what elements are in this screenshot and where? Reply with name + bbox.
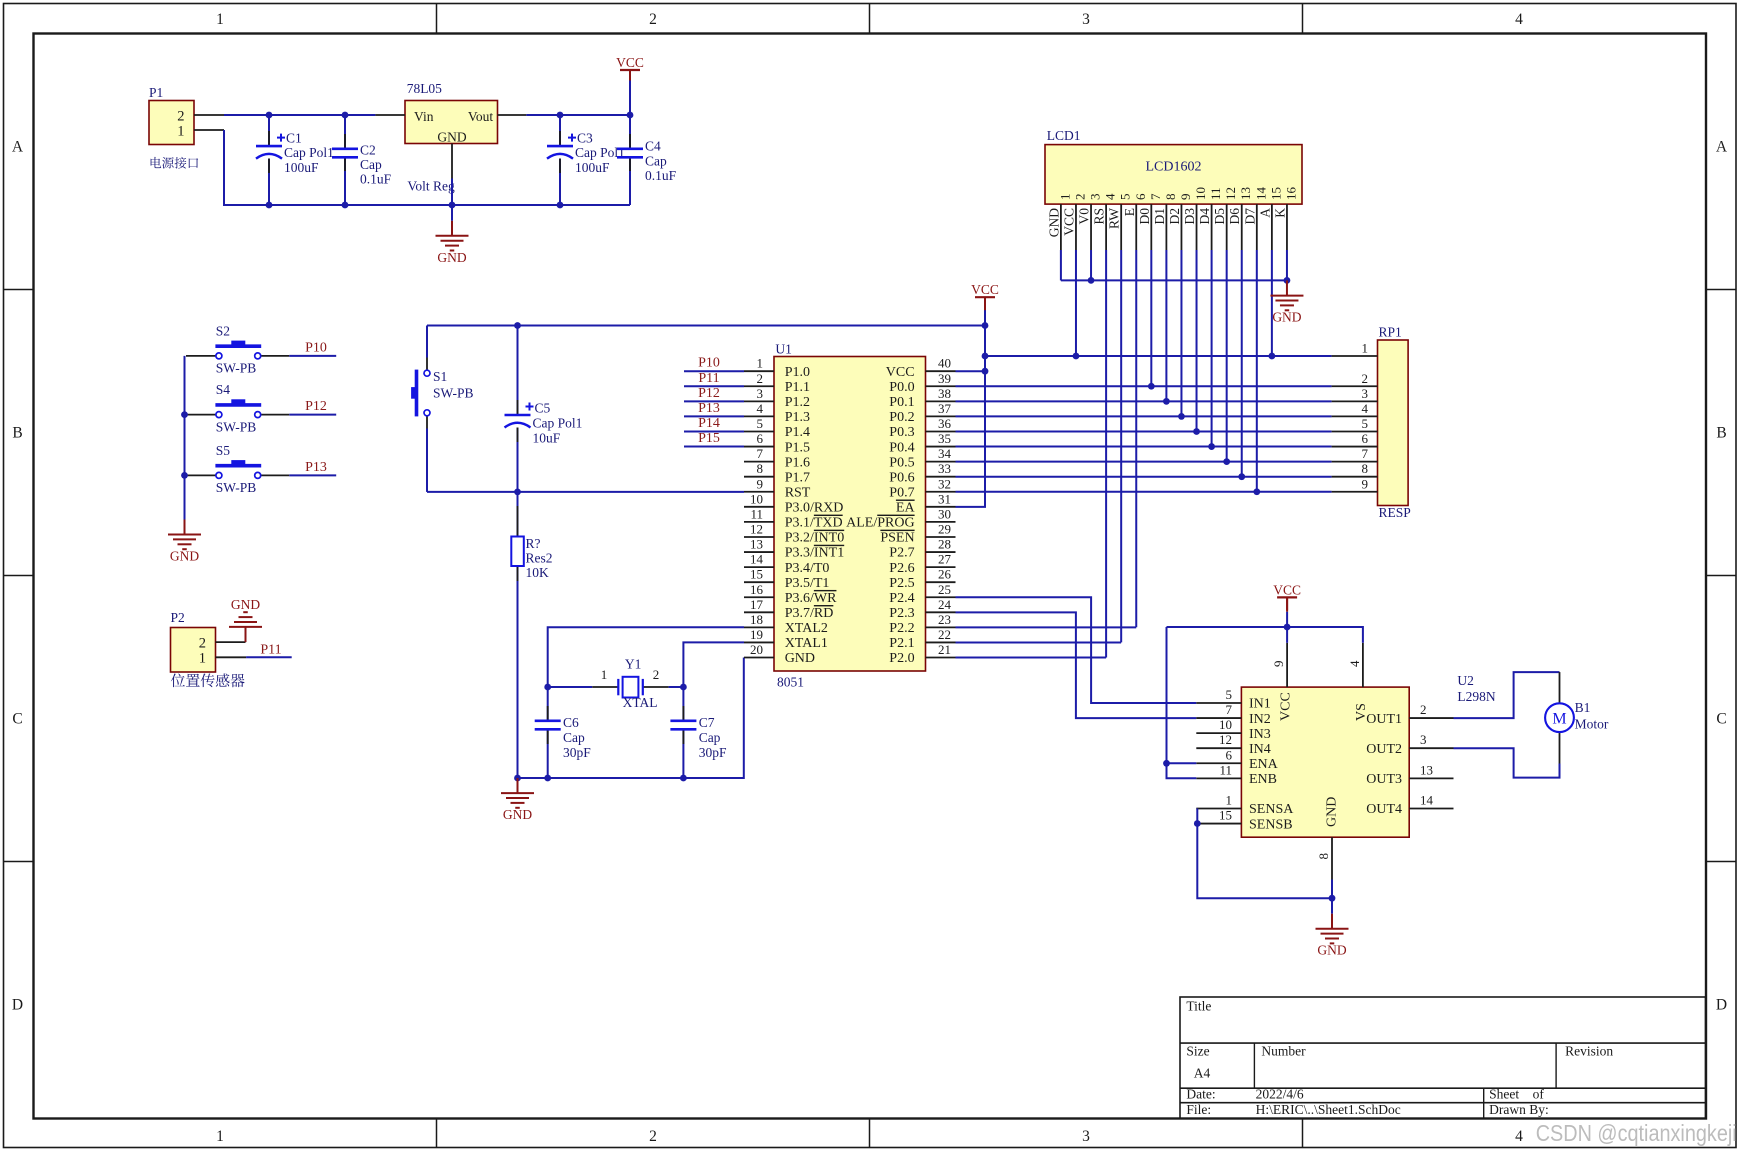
svg-text:P0.2: P0.2: [889, 410, 914, 425]
svg-text:10: 10: [1193, 187, 1208, 200]
svg-text:10uF: 10uF: [533, 431, 561, 446]
svg-text:1: 1: [177, 123, 184, 139]
svg-text:14: 14: [750, 552, 764, 567]
svg-text:22: 22: [938, 627, 951, 642]
svg-text:P0.6: P0.6: [889, 470, 914, 485]
svg-text:12: 12: [1219, 732, 1232, 747]
svg-text:7: 7: [757, 446, 764, 461]
svg-text:30pF: 30pF: [563, 745, 591, 760]
svg-text:6: 6: [1226, 747, 1233, 762]
svg-text:RP1: RP1: [1379, 324, 1402, 339]
svg-text:10: 10: [750, 491, 763, 506]
svg-text:2: 2: [1420, 702, 1427, 717]
svg-text:1: 1: [601, 667, 608, 682]
svg-text:1: 1: [1057, 194, 1072, 201]
svg-text:P2: P2: [171, 610, 185, 625]
svg-text:D3: D3: [1182, 208, 1197, 225]
svg-text:P13: P13: [698, 401, 720, 416]
svg-text:3: 3: [1420, 732, 1427, 747]
svg-text:4: 4: [1515, 1128, 1523, 1145]
svg-text:GND: GND: [437, 130, 466, 145]
svg-text:RW: RW: [1107, 208, 1122, 229]
svg-text:U2: U2: [1457, 673, 1474, 688]
svg-text:17: 17: [750, 597, 764, 612]
svg-text:2: 2: [199, 636, 206, 652]
svg-text:P14: P14: [698, 416, 720, 431]
svg-text:P3.7/RD: P3.7/RD: [785, 606, 834, 621]
svg-text:26: 26: [938, 567, 952, 582]
svg-text:P2.7: P2.7: [889, 546, 914, 561]
svg-text:Drawn By:: Drawn By:: [1489, 1102, 1549, 1117]
svg-text:GND: GND: [231, 597, 260, 612]
svg-text:Cap: Cap: [645, 153, 667, 168]
svg-text:3: 3: [1082, 11, 1090, 28]
svg-text:P3.5/T1: P3.5/T1: [785, 576, 830, 591]
svg-text:P13: P13: [305, 460, 327, 475]
svg-text:Res2: Res2: [526, 551, 553, 566]
svg-text:39: 39: [938, 371, 951, 386]
svg-text:13: 13: [1420, 762, 1433, 777]
svg-text:2: 2: [1072, 194, 1087, 201]
svg-text:37: 37: [938, 401, 952, 416]
svg-text:6: 6: [1362, 431, 1369, 446]
svg-text:P3.1/TXD: P3.1/TXD: [785, 516, 843, 531]
svg-text:2: 2: [649, 11, 657, 28]
svg-text:8: 8: [757, 461, 764, 476]
svg-text:VCC: VCC: [971, 282, 999, 297]
svg-text:Cap Pol1: Cap Pol1: [284, 145, 334, 160]
svg-text:2: 2: [757, 371, 764, 386]
svg-text:RESP: RESP: [1379, 505, 1411, 520]
svg-text:IN2: IN2: [1249, 712, 1271, 727]
svg-text:P2.6: P2.6: [889, 561, 914, 576]
svg-text:PSEN: PSEN: [880, 531, 914, 546]
svg-text:OUT3: OUT3: [1366, 772, 1402, 787]
svg-text:C1: C1: [286, 131, 302, 146]
svg-text:1: 1: [199, 651, 206, 667]
svg-text:H:\ERIC\..\Sheet1.SchDoc: H:\ERIC\..\Sheet1.SchDoc: [1256, 1102, 1401, 1117]
svg-text:VS: VS: [1354, 703, 1369, 721]
svg-text:C6: C6: [563, 715, 579, 730]
svg-text:P2.0: P2.0: [889, 651, 914, 666]
svg-text:P1.7: P1.7: [785, 470, 810, 485]
svg-text:3: 3: [1362, 386, 1369, 401]
svg-text:IN1: IN1: [1249, 697, 1271, 712]
svg-text:38: 38: [938, 386, 951, 401]
svg-text:6: 6: [757, 431, 764, 446]
svg-text:P0.3: P0.3: [889, 425, 914, 440]
svg-text:P1.5: P1.5: [785, 440, 810, 455]
svg-text:C7: C7: [699, 715, 715, 730]
svg-text:VCC: VCC: [1279, 692, 1294, 721]
svg-text:B1: B1: [1575, 700, 1591, 715]
svg-text:A: A: [12, 139, 24, 156]
svg-text:VCC: VCC: [1061, 208, 1076, 236]
svg-text:7: 7: [1362, 446, 1369, 461]
svg-text:S1: S1: [433, 369, 447, 384]
svg-text:LCD1602: LCD1602: [1146, 160, 1202, 175]
svg-text:35: 35: [938, 431, 951, 446]
svg-text:P0.0: P0.0: [889, 380, 914, 395]
svg-text:P3.3/INT1: P3.3/INT1: [785, 546, 845, 561]
svg-text:10K: 10K: [526, 565, 550, 580]
svg-text:C: C: [1716, 711, 1726, 728]
svg-text:Size: Size: [1186, 1043, 1209, 1058]
svg-text:ENA: ENA: [1249, 757, 1279, 772]
svg-text:30pF: 30pF: [699, 745, 727, 760]
svg-text:Cap: Cap: [360, 157, 382, 172]
svg-text:C4: C4: [645, 139, 661, 154]
svg-text:11: 11: [1208, 187, 1223, 200]
svg-text:A: A: [1257, 208, 1272, 218]
svg-text:4: 4: [1515, 11, 1523, 28]
svg-text:5: 5: [1362, 416, 1369, 431]
svg-text:K: K: [1272, 208, 1287, 218]
svg-text:9: 9: [1362, 476, 1369, 491]
svg-text:23: 23: [938, 612, 951, 627]
svg-text:Title: Title: [1186, 998, 1211, 1013]
svg-text:P0.1: P0.1: [889, 395, 914, 410]
svg-text:12: 12: [1223, 187, 1238, 200]
svg-text:16: 16: [750, 582, 764, 597]
svg-text:C3: C3: [577, 131, 593, 146]
svg-text:25: 25: [938, 582, 951, 597]
svg-text:7: 7: [1226, 702, 1233, 717]
svg-text:D6: D6: [1227, 208, 1242, 225]
svg-text:7: 7: [1148, 193, 1163, 200]
svg-text:20: 20: [750, 642, 763, 657]
svg-text:13: 13: [1238, 187, 1253, 200]
svg-text:File:: File:: [1186, 1102, 1211, 1117]
svg-text:1: 1: [1226, 792, 1233, 807]
svg-text:6: 6: [1133, 193, 1148, 200]
svg-text:2: 2: [1362, 371, 1369, 386]
svg-text:IN3: IN3: [1249, 727, 1271, 742]
svg-text:1: 1: [1362, 341, 1369, 356]
svg-text:Date:: Date:: [1186, 1086, 1215, 1101]
svg-text:D: D: [12, 997, 23, 1014]
svg-text:P2.4: P2.4: [889, 591, 914, 606]
svg-text:L298N: L298N: [1457, 689, 1495, 704]
svg-text:P2.3: P2.3: [889, 606, 914, 621]
svg-text:19: 19: [750, 627, 763, 642]
svg-text:XTAL: XTAL: [623, 695, 658, 710]
svg-text:SENSB: SENSB: [1249, 817, 1293, 832]
svg-text:5: 5: [1226, 687, 1233, 702]
svg-text:16: 16: [1283, 187, 1298, 201]
svg-text:D0: D0: [1137, 208, 1152, 225]
svg-text:IN4: IN4: [1249, 742, 1271, 757]
svg-text:P3.2/INT0: P3.2/INT0: [785, 531, 845, 546]
svg-text:5: 5: [757, 416, 764, 431]
svg-text:ENB: ENB: [1249, 772, 1277, 787]
svg-text:OUT2: OUT2: [1366, 742, 1402, 757]
svg-text:Vin: Vin: [414, 109, 434, 124]
svg-text:8: 8: [1362, 461, 1369, 476]
svg-text:P0.5: P0.5: [889, 455, 914, 470]
svg-text:29: 29: [938, 521, 951, 536]
svg-text:SW-PB: SW-PB: [433, 386, 474, 401]
svg-text:EA: EA: [896, 501, 916, 516]
svg-text:0.1uF: 0.1uF: [360, 172, 392, 187]
svg-text:40: 40: [938, 356, 951, 371]
svg-text:21: 21: [938, 642, 951, 657]
svg-text:14: 14: [1420, 792, 1434, 807]
svg-text:33: 33: [938, 461, 951, 476]
svg-text:P2.1: P2.1: [889, 636, 914, 651]
svg-text:34: 34: [938, 446, 952, 461]
svg-text:Vout: Vout: [468, 109, 494, 124]
svg-text:Y1: Y1: [625, 656, 642, 671]
svg-text:4: 4: [1347, 660, 1362, 667]
svg-text:U1: U1: [775, 342, 792, 357]
svg-text:P2.2: P2.2: [889, 621, 914, 636]
svg-text:4: 4: [1103, 193, 1118, 200]
svg-text:13: 13: [750, 537, 763, 552]
svg-text:C2: C2: [360, 142, 376, 157]
svg-text:GND: GND: [503, 807, 532, 822]
svg-text:D4: D4: [1197, 208, 1212, 225]
svg-text:D2: D2: [1167, 208, 1182, 225]
svg-text:1: 1: [216, 1128, 224, 1145]
svg-text:24: 24: [938, 597, 952, 612]
svg-text:Revision: Revision: [1565, 1043, 1613, 1058]
svg-text:P1.2: P1.2: [785, 395, 810, 410]
svg-text:1: 1: [757, 356, 764, 371]
svg-text:GND: GND: [1325, 797, 1340, 827]
svg-text:100uF: 100uF: [284, 160, 319, 175]
svg-text:P3.6/WR: P3.6/WR: [785, 591, 837, 606]
svg-text:P11: P11: [698, 371, 719, 386]
svg-text:LCD1: LCD1: [1047, 128, 1081, 143]
svg-text:12: 12: [750, 521, 763, 536]
svg-text:0.1uF: 0.1uF: [645, 168, 677, 183]
svg-text:GND: GND: [1046, 208, 1061, 237]
svg-text:2: 2: [653, 667, 660, 682]
svg-text:C5: C5: [535, 401, 551, 416]
svg-text:XTAL2: XTAL2: [785, 621, 828, 636]
svg-text:11: 11: [750, 506, 763, 521]
svg-text:4: 4: [1362, 401, 1369, 416]
svg-text:GND: GND: [170, 549, 199, 564]
svg-text:P3.0/RXD: P3.0/RXD: [785, 501, 844, 516]
svg-text:SW-PB: SW-PB: [216, 419, 257, 434]
svg-text:VCC: VCC: [1273, 582, 1301, 597]
svg-text:11: 11: [1219, 762, 1232, 777]
svg-text:D5: D5: [1212, 208, 1227, 225]
svg-text:9: 9: [1271, 661, 1286, 668]
svg-text:ALE/PROG: ALE/PROG: [846, 516, 914, 531]
svg-text:SW-PB: SW-PB: [216, 361, 257, 376]
svg-text:P1.4: P1.4: [785, 425, 810, 440]
svg-text:27: 27: [938, 552, 952, 567]
svg-text:P0.7: P0.7: [889, 485, 914, 500]
svg-text:P0.4: P0.4: [889, 440, 914, 455]
svg-text:E: E: [1122, 208, 1137, 216]
svg-text:18: 18: [750, 612, 763, 627]
svg-text:B: B: [12, 425, 22, 442]
svg-text:A: A: [1716, 139, 1728, 156]
svg-text:3: 3: [1082, 1128, 1090, 1145]
svg-text:GND: GND: [1272, 310, 1301, 325]
svg-text:9: 9: [757, 476, 764, 491]
svg-text:5: 5: [1118, 194, 1133, 201]
svg-text:2022/4/6: 2022/4/6: [1256, 1086, 1304, 1101]
svg-text:28: 28: [938, 537, 951, 552]
svg-text:Sheet of: Sheet of: [1489, 1086, 1544, 1101]
svg-text:1: 1: [216, 11, 224, 28]
svg-text:A4: A4: [1194, 1065, 1211, 1080]
svg-text:RS: RS: [1092, 208, 1107, 225]
svg-text:P12: P12: [305, 399, 327, 414]
svg-text:8: 8: [1316, 853, 1331, 860]
svg-text:14: 14: [1253, 187, 1268, 201]
svg-text:M: M: [1552, 711, 1566, 728]
svg-text:31: 31: [938, 491, 951, 506]
svg-text:D: D: [1716, 997, 1727, 1014]
svg-text:78L05: 78L05: [407, 81, 442, 96]
svg-text:Cap: Cap: [699, 730, 721, 745]
svg-text:15: 15: [1268, 187, 1283, 200]
svg-text:P3.4/T0: P3.4/T0: [785, 561, 830, 576]
svg-text:C: C: [12, 711, 22, 728]
svg-text:B: B: [1716, 425, 1726, 442]
svg-text:15: 15: [1219, 808, 1232, 823]
svg-text:P1.6: P1.6: [785, 455, 810, 470]
svg-text:8051: 8051: [777, 675, 804, 690]
svg-text:OUT4: OUT4: [1366, 802, 1402, 817]
svg-text:3: 3: [1088, 194, 1103, 201]
svg-text:SW-PB: SW-PB: [216, 480, 257, 495]
svg-text:30: 30: [938, 506, 951, 521]
svg-text:9: 9: [1178, 194, 1193, 201]
svg-text:OUT1: OUT1: [1366, 712, 1402, 727]
svg-text:D1: D1: [1152, 208, 1167, 225]
svg-text:P11: P11: [260, 642, 281, 657]
svg-text:P10: P10: [698, 356, 720, 371]
svg-text:Motor: Motor: [1575, 716, 1609, 731]
svg-text:32: 32: [938, 476, 951, 491]
svg-text:2: 2: [177, 108, 184, 124]
svg-text:15: 15: [750, 567, 763, 582]
svg-text:VCC: VCC: [616, 55, 644, 70]
svg-text:4: 4: [757, 401, 764, 416]
svg-text:VCC: VCC: [886, 365, 915, 380]
svg-text:10: 10: [1219, 717, 1232, 732]
svg-text:S5: S5: [216, 443, 231, 458]
svg-text:RST: RST: [785, 485, 811, 500]
svg-text:V0: V0: [1077, 208, 1092, 225]
svg-text:P12: P12: [698, 386, 720, 401]
svg-text:2: 2: [649, 1128, 657, 1145]
svg-text:3: 3: [757, 386, 764, 401]
svg-text:D7: D7: [1242, 208, 1257, 225]
svg-text:36: 36: [938, 416, 952, 431]
svg-text:GND: GND: [1317, 943, 1346, 958]
svg-text:XTAL1: XTAL1: [785, 636, 828, 651]
svg-text:Number: Number: [1261, 1043, 1306, 1058]
svg-text:100uF: 100uF: [575, 160, 610, 175]
svg-text:P1.3: P1.3: [785, 410, 810, 425]
svg-text:Cap Pol1: Cap Pol1: [533, 416, 583, 431]
svg-text:P2.5: P2.5: [889, 576, 914, 591]
svg-text:Cap: Cap: [563, 730, 585, 745]
svg-text:Volt Reg: Volt Reg: [407, 179, 455, 194]
svg-text:GND: GND: [437, 250, 466, 265]
svg-text:P1.0: P1.0: [785, 365, 810, 380]
svg-text:P10: P10: [305, 340, 327, 355]
svg-text:GND: GND: [785, 651, 815, 666]
svg-text:S2: S2: [216, 323, 230, 338]
svg-text:P15: P15: [698, 431, 720, 446]
svg-text:R?: R?: [526, 536, 541, 551]
svg-text:CSDN @cqtianxingkeji: CSDN @cqtianxingkeji: [1536, 1120, 1737, 1146]
svg-text:P1.1: P1.1: [785, 380, 810, 395]
svg-text:S4: S4: [216, 382, 231, 397]
svg-text:P1: P1: [149, 85, 163, 100]
svg-text:SENSA: SENSA: [1249, 802, 1294, 817]
svg-text:8: 8: [1163, 194, 1178, 201]
